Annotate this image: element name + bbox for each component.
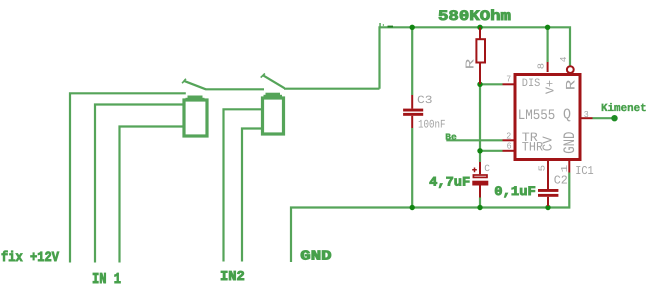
svg-text:IN 1: IN 1 [92,271,121,286]
svg-text:0,1uF: 0,1uF [494,184,536,199]
svg-text:4,7uF: 4,7uF [429,174,470,189]
svg-text:C: C [484,163,490,174]
svg-text:5: 5 [538,165,548,172]
svg-text:GND: GND [300,250,331,265]
svg-text:GND: GND [561,132,579,154]
svg-text:Be: Be [445,133,457,143]
svg-text:R: R [463,59,477,70]
svg-text:IN2: IN2 [220,270,245,285]
svg-text:580KOhm: 580KOhm [438,9,511,25]
svg-text:1: 1 [560,165,570,173]
svg-text:Kimenet: Kimenet [601,103,647,115]
svg-text:THR: THR [522,139,544,154]
svg-text:8: 8 [536,63,546,69]
svg-text:LM555: LM555 [518,108,556,124]
svg-text:IC1: IC1 [575,164,593,178]
svg-text:6: 6 [507,142,512,152]
svg-text:V+: V+ [543,80,557,94]
svg-text:Q: Q [563,106,571,123]
svg-text:CV: CV [541,135,556,151]
svg-text:4: 4 [559,57,569,63]
svg-text:R: R [563,80,578,91]
svg-text:fix +12V: fix +12V [1,250,60,266]
svg-text:DIS: DIS [522,78,541,90]
svg-text:C2: C2 [554,173,568,187]
svg-text:7: 7 [506,74,511,84]
svg-text:C3: C3 [417,95,433,107]
svg-text:2: 2 [506,132,511,142]
svg-text:100nF: 100nF [418,119,446,132]
svg-text:3: 3 [584,110,589,120]
